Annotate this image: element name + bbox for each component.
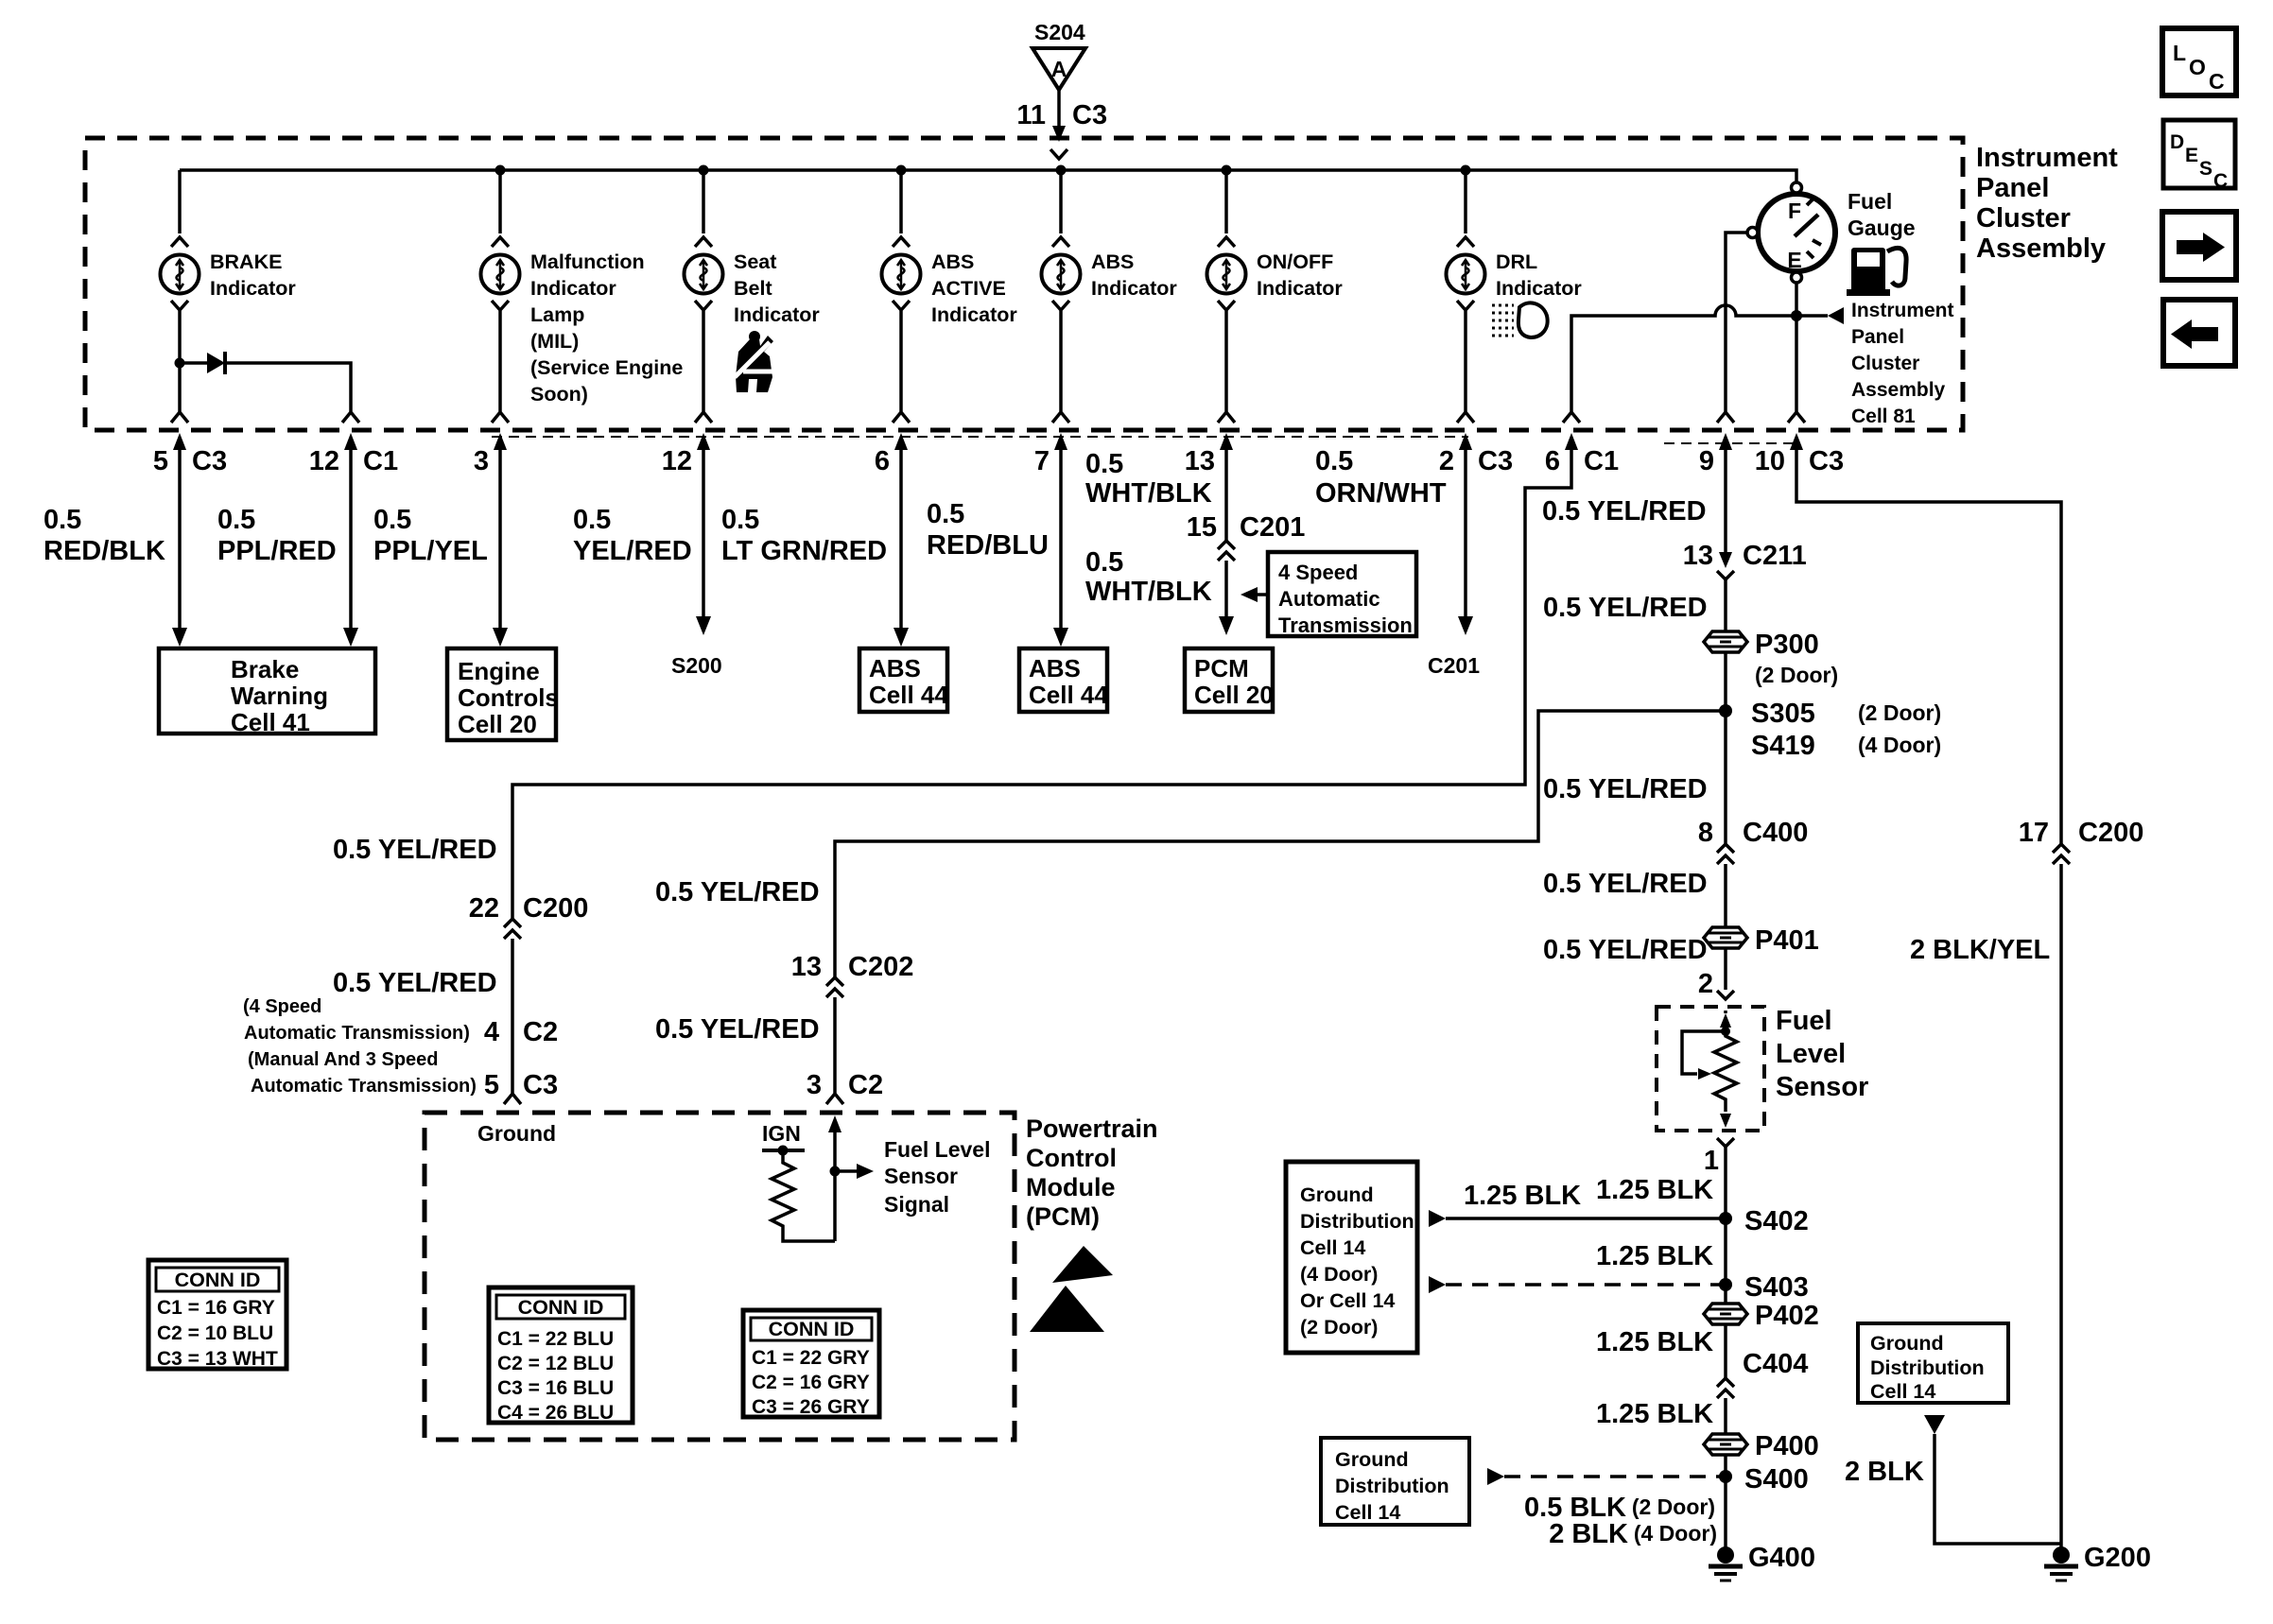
svg-text:Fuel: Fuel — [1776, 1006, 1832, 1036]
wire C211 to P300 — [1724, 579, 1727, 631]
wire splice S305 stepped to connector 13 C202 — [835, 711, 1720, 977]
svg-text:Automatic Transmission): Automatic Transmission) — [251, 1076, 477, 1097]
box 4 Speed Automatic Transmission — [1268, 552, 1416, 637]
connector 13 C211 in-line — [1683, 541, 1807, 579]
svg-text:C2: C2 — [523, 1017, 558, 1047]
svg-text:1.25 BLK: 1.25 BLK — [1596, 1175, 1713, 1205]
svg-text:C1 = 16 GRY: C1 = 16 GRY — [157, 1297, 275, 1319]
pin 12 of cluster — [662, 433, 710, 476]
wire fuel gauge left terminal to pin 9 — [1717, 233, 1747, 423]
wire label 0.5 WHT/BLK (upper) — [1085, 449, 1212, 509]
svg-text:2 BLK/YEL: 2 BLK/YEL — [1910, 935, 2050, 965]
svg-text:F: F — [1788, 199, 1801, 223]
wire P300 to splice S305 — [1724, 652, 1727, 844]
node bus/ON-OFF — [1222, 165, 1232, 176]
svg-text:C: C — [2213, 170, 2228, 192]
thin dashed connector segment right — [1664, 442, 1796, 444]
svg-text:0.5 YEL/RED: 0.5 YEL/RED — [1543, 869, 1708, 899]
svg-text:C4 = 26 BLU: C4 = 26 BLU — [497, 1402, 614, 1424]
wire pin 13 to connector C201 — [1224, 450, 1228, 541]
svg-text:(4 Door): (4 Door) — [1858, 733, 1941, 757]
pin 6 C1 of cluster — [1545, 433, 1619, 476]
svg-text:15: 15 — [1187, 512, 1217, 543]
svg-text:C2 = 16 GRY: C2 = 16 GRY — [752, 1372, 870, 1393]
indicator lamp MIL — [481, 255, 520, 294]
connector C404 in-line — [1717, 1349, 1808, 1398]
connector 17 C200 in-line — [2019, 818, 2144, 864]
svg-text:2 BLK: 2 BLK — [1845, 1457, 1924, 1487]
svg-text:C2 = 12 BLU: C2 = 12 BLU — [497, 1353, 614, 1374]
svg-text:S: S — [2199, 158, 2212, 180]
svg-text:Malfunction: Malfunction — [530, 251, 645, 273]
svg-text:C: C — [2209, 69, 2225, 94]
wire PCM pin 3 C2 to signal node (arrow up into box) — [828, 1115, 842, 1241]
label BRAKE Indicator — [210, 251, 296, 300]
svg-text:Transmission: Transmission — [1278, 613, 1413, 637]
svg-text:Seat: Seat — [734, 251, 776, 273]
ground G200 — [2044, 1543, 2151, 1581]
svg-text:WHT/BLK: WHT/BLK — [1085, 577, 1212, 607]
svg-text:RED/BLK: RED/BLK — [43, 536, 165, 566]
wire bus to ABS lamp — [1052, 170, 1069, 247]
wire C200 to ground G200 — [2059, 864, 2063, 1548]
svg-text:Instrument: Instrument — [1851, 300, 1954, 321]
svg-text:C2: C2 — [848, 1070, 883, 1100]
svg-text:0.5: 0.5 — [1085, 547, 1123, 578]
svg-text:0.5 YEL/RED: 0.5 YEL/RED — [333, 968, 497, 998]
svg-text:P401: P401 — [1755, 925, 1819, 956]
wire node to continuation arrow — [1796, 314, 1828, 318]
wire bus to DRL lamp — [1457, 170, 1474, 247]
label DRL Indicator — [1496, 251, 1582, 300]
svg-text:YEL/RED: YEL/RED — [573, 536, 692, 566]
svg-text:(4 Door): (4 Door) — [1300, 1263, 1378, 1286]
indicator lamp ABS — [1042, 255, 1081, 294]
svg-text:E: E — [2185, 145, 2198, 166]
svg-text:C3: C3 — [1478, 446, 1513, 476]
svg-text:0.5: 0.5 — [373, 505, 411, 535]
svg-text:Belt: Belt — [734, 277, 772, 300]
wire pin 5 to Brake Warning — [172, 450, 187, 647]
svg-text:(4 Speed: (4 Speed — [243, 996, 321, 1017]
svg-text:S204: S204 — [1034, 20, 1085, 44]
indicator lamp Seat Belt — [685, 255, 723, 294]
svg-text:Fuel: Fuel — [1848, 189, 1892, 214]
label Fuel Level Sensor — [1776, 1006, 1868, 1102]
wire pin 10 C3 to connector 17 C200 — [1796, 450, 2061, 844]
splice node S305/S419 — [1719, 699, 1941, 761]
svg-text:Cluster: Cluster — [1851, 353, 1919, 374]
wire label 0.5 WHT/BLK (lower) — [1085, 547, 1212, 607]
svg-text:ABS: ABS — [1029, 654, 1081, 682]
svg-text:C3: C3 — [1809, 446, 1844, 476]
svg-text:Gauge: Gauge — [1848, 216, 1916, 240]
svg-text:Assembly: Assembly — [1851, 379, 1946, 401]
svg-text:0.5: 0.5 — [1315, 446, 1353, 476]
wire bus to ABS ACTIVE lamp — [893, 170, 910, 247]
svg-text:C211: C211 — [1743, 541, 1807, 571]
svg-text:Powertrain: Powertrain — [1026, 1114, 1158, 1143]
pin 2 C3 of cluster — [1439, 433, 1513, 476]
svg-text:CONN ID: CONN ID — [175, 1269, 261, 1291]
thin dashed connector line under cluster — [492, 436, 1468, 438]
wire bus to Seat Belt lamp — [695, 170, 712, 247]
svg-text:Or Cell 14: Or Cell 14 — [1300, 1289, 1395, 1312]
box Engine Controls Cell 20 — [447, 648, 559, 740]
svg-text:Cell 20: Cell 20 — [1194, 681, 1274, 709]
wire connector C201 to PCM cell 20 — [1219, 561, 1234, 635]
connector 13 C202 in-line — [791, 952, 914, 997]
button previous arrow — [2163, 300, 2235, 366]
svg-text:PPL/YEL: PPL/YEL — [373, 536, 488, 566]
svg-text:6: 6 — [875, 446, 890, 476]
svg-text:P400: P400 — [1755, 1431, 1819, 1461]
wire pin 6 C1 riser to gauge output node (with hop over pin 9 wire) — [1563, 305, 1796, 423]
label Powertrain Control Module (PCM) — [1026, 1114, 1158, 1231]
label Fuel Level Sensor Signal — [884, 1137, 990, 1217]
svg-text:11: 11 — [1016, 100, 1046, 130]
svg-text:Indicator: Indicator — [530, 277, 616, 300]
svg-text:C202: C202 — [848, 952, 913, 982]
pin 11 C3 labels — [1016, 100, 1107, 130]
terminal fuel gauge top — [1792, 182, 1802, 193]
svg-text:Fuel Level: Fuel Level — [884, 1137, 990, 1162]
svg-text:Assembly: Assembly — [1976, 233, 2106, 264]
svg-text:P402: P402 — [1755, 1301, 1819, 1331]
indicator lamp ABS ACTIVE — [882, 255, 921, 294]
svg-text:Sensor: Sensor — [884, 1164, 958, 1188]
svg-text:L: L — [2173, 41, 2186, 65]
svg-text:13: 13 — [1185, 446, 1215, 476]
svg-text:C200: C200 — [523, 893, 588, 924]
svg-text:3: 3 — [807, 1070, 822, 1100]
wire S204 to cluster pin 11 C3 — [1052, 90, 1066, 142]
svg-text:10: 10 — [1755, 446, 1785, 476]
svg-text:Distribution: Distribution — [1335, 1475, 1449, 1497]
connector 22 C200 in-line — [469, 893, 589, 939]
svg-text:S305: S305 — [1751, 699, 1815, 729]
svg-text:Indicator: Indicator — [931, 303, 1017, 326]
indicator lamp DRL — [1447, 255, 1485, 294]
wire connector C202 to PCM signal pin 3 C2 — [826, 997, 843, 1104]
box PCM Cell 20 — [1185, 648, 1274, 712]
svg-text:Warning: Warning — [231, 682, 328, 710]
box Ground Distribution Cell 14 (lower left) — [1321, 1438, 1469, 1525]
indicator lamp ON/OFF — [1207, 255, 1246, 294]
wire pin 12 to splice S200 — [696, 450, 711, 635]
wire pin 9 to connector C211 — [1724, 450, 1727, 552]
svg-text:0.5 YEL/RED: 0.5 YEL/RED — [1543, 935, 1708, 965]
label Instrument Panel Cluster Assembly — [1976, 143, 2118, 264]
svg-text:CONN ID: CONN ID — [518, 1296, 604, 1319]
svg-text:0.5: 0.5 — [217, 505, 255, 535]
wire connector C200 to PCM ground pin — [504, 939, 521, 1104]
connector chevron at cluster entry — [1050, 149, 1067, 159]
svg-text:Automatic Transmission): Automatic Transmission) — [244, 1023, 470, 1044]
dashed wire ground distribution to splice S403 — [1429, 1276, 1726, 1293]
node bus/MIL — [495, 165, 506, 176]
wire label 0.5 LT GRN/RED — [721, 505, 887, 566]
icon fuel pump — [1847, 248, 1906, 296]
svg-text:Lamp: Lamp — [530, 303, 584, 326]
svg-text:Level: Level — [1776, 1039, 1846, 1069]
pass-through grommet P402 — [1704, 1301, 1819, 1331]
svg-text:2: 2 — [1439, 446, 1454, 476]
svg-text:Brake: Brake — [231, 655, 299, 683]
wire pin 6 to ABS cell 44 — [894, 450, 909, 647]
wire P401 to Fuel Level Sensor pin 2 — [1698, 948, 1734, 999]
svg-text:Distribution: Distribution — [1300, 1210, 1414, 1233]
button next arrow — [2162, 212, 2236, 280]
svg-text:O: O — [2189, 55, 2206, 79]
box ABS Cell 44 (left) — [859, 648, 948, 712]
svg-text:C400: C400 — [1743, 818, 1808, 848]
wire pin 12 C1 to Brake Warning — [343, 450, 358, 647]
svg-text:C3 = 13 WHT: C3 = 13 WHT — [157, 1348, 278, 1370]
svg-text:1.25 BLK: 1.25 BLK — [1596, 1241, 1713, 1271]
svg-text:1.25 BLK: 1.25 BLK — [1464, 1181, 1581, 1211]
svg-text:PCM: PCM — [1194, 654, 1249, 682]
svg-text:RED/BLU: RED/BLU — [927, 530, 1049, 561]
svg-text:2: 2 — [1698, 969, 1713, 999]
svg-text:(2 Door): (2 Door) — [1300, 1316, 1378, 1339]
svg-text:12: 12 — [309, 446, 339, 476]
svg-text:9: 9 — [1699, 446, 1714, 476]
svg-text:(2 Door): (2 Door) — [1858, 700, 1941, 725]
svg-text:0.5 YEL/RED: 0.5 YEL/RED — [1543, 593, 1708, 623]
wire ON/OFF lamp to pin 13 — [1218, 301, 1235, 423]
svg-text:C1 = 22 GRY: C1 = 22 GRY — [752, 1347, 870, 1369]
arrow 4 Speed box to WHT/BLK wire — [1241, 587, 1268, 602]
svg-text:Ground: Ground — [477, 1121, 556, 1146]
splice node S400 — [1719, 1464, 1809, 1494]
pass-through grommet P401 — [1704, 925, 1819, 956]
pin 6 of cluster — [875, 433, 908, 476]
svg-text:7: 7 — [1034, 446, 1050, 476]
svg-text:4: 4 — [484, 1017, 499, 1047]
box Brake Warning Cell 41 — [159, 648, 375, 736]
svg-text:Engine: Engine — [458, 657, 540, 685]
table CONN ID (PCM C1-C3 GRY) — [743, 1310, 879, 1418]
wire bus inside cluster — [180, 170, 1796, 182]
fuel gauge — [1758, 194, 1835, 272]
svg-text:Cell 14: Cell 14 — [1870, 1380, 1935, 1403]
svg-text:Indicator: Indicator — [1496, 277, 1582, 300]
wire pin 6 C1 stepped to connector 22 C200 — [512, 450, 1571, 919]
label (Manual And 3 Speed Automatic Transmission) pin 5 C3 — [248, 1049, 558, 1100]
connector 15 C201 in-line — [1187, 512, 1306, 561]
svg-text:CONN ID: CONN ID — [769, 1318, 855, 1340]
svg-text:C201: C201 — [1428, 653, 1480, 678]
wire pin 7 to ABS cell 44 — [1053, 450, 1068, 647]
svg-text:E: E — [1787, 248, 1801, 272]
svg-text:S403: S403 — [1744, 1272, 1809, 1303]
svg-text:S419: S419 — [1751, 731, 1815, 761]
label ABS Indicator — [1091, 251, 1177, 300]
svg-text:Signal: Signal — [884, 1192, 949, 1217]
wire label 0.5 YEL/RED — [573, 505, 692, 566]
svg-text:S402: S402 — [1744, 1206, 1809, 1236]
wire label 0.5 RED/BLU — [927, 499, 1049, 561]
indicator lamp BRAKE — [161, 255, 200, 294]
Powertrain Control Module (PCM) dashed box — [425, 1113, 1015, 1440]
svg-text:Cell 14: Cell 14 — [1335, 1501, 1400, 1524]
wire ground distribution (right) to G200 wire — [1924, 1415, 2061, 1544]
svg-text:(2 Door): (2 Door) — [1632, 1494, 1715, 1519]
svg-text:ORN/WHT: ORN/WHT — [1315, 478, 1447, 509]
wire label 2 BLK (4 Door) — [1549, 1519, 1717, 1549]
Fuel Level Sensor dashed box — [1657, 1007, 1764, 1131]
svg-text:0.5: 0.5 — [721, 505, 759, 535]
svg-text:Soon): Soon) — [530, 383, 588, 406]
svg-text:DRL: DRL — [1496, 251, 1537, 273]
variable resistor (fuel level sender) — [1714, 1011, 1737, 1128]
svg-text:8: 8 — [1698, 818, 1713, 848]
node bus/DRL — [1461, 165, 1471, 176]
wire bus to BRAKE lamp — [171, 170, 188, 247]
pin 12 C1 of cluster — [309, 433, 398, 476]
svg-text:1: 1 — [1704, 1146, 1719, 1176]
label pin 3 C2 — [807, 1070, 883, 1100]
svg-text:Indicator: Indicator — [1257, 277, 1343, 300]
label ON/OFF Indicator — [1257, 251, 1343, 300]
label Malfunction Indicator Lamp (MIL) (Service Engine Soon) — [530, 251, 683, 406]
svg-text:Automatic: Automatic — [1278, 587, 1380, 611]
svg-text:Module: Module — [1026, 1173, 1116, 1201]
svg-text:Ground: Ground — [1335, 1448, 1409, 1471]
svg-text:Indicator: Indicator — [734, 303, 820, 326]
pass-through grommet P300 — [1704, 630, 1838, 687]
svg-text:LT GRN/RED: LT GRN/RED — [721, 536, 887, 566]
svg-text:A: A — [1051, 57, 1067, 81]
pass-through grommet P400 — [1704, 1431, 1819, 1461]
node IGN — [778, 1146, 789, 1156]
svg-text:(Manual And 3 Speed: (Manual And 3 Speed — [248, 1049, 439, 1070]
svg-text:6: 6 — [1545, 446, 1560, 476]
svg-text:IGN: IGN — [762, 1121, 801, 1146]
wire DRL lamp to pin 2 C3 — [1457, 301, 1474, 423]
svg-text:G400: G400 — [1748, 1543, 1815, 1573]
svg-text:Sensor: Sensor — [1776, 1072, 1868, 1102]
svg-text:1.25 BLK: 1.25 BLK — [1596, 1399, 1713, 1429]
ground G400 — [1709, 1543, 1815, 1581]
icon DRL headlamp — [1492, 302, 1548, 337]
label ABS ACTIVE Indicator — [931, 251, 1017, 326]
wire Seat Belt lamp to pin 12 — [695, 301, 712, 423]
node diode junction — [175, 358, 185, 369]
svg-text:0.5: 0.5 — [927, 499, 964, 529]
wire label 0.5 PPL/YEL — [373, 505, 488, 566]
svg-text:P300: P300 — [1755, 630, 1819, 660]
svg-text:0.5 YEL/RED: 0.5 YEL/RED — [1543, 774, 1708, 804]
svg-text:2 BLK: 2 BLK — [1549, 1519, 1628, 1549]
svg-text:ABS: ABS — [1091, 251, 1134, 273]
svg-text:C3: C3 — [1072, 100, 1107, 130]
svg-text:ABS: ABS — [869, 654, 921, 682]
wire P402 to C404 — [1724, 1324, 1727, 1378]
svg-text:Cell 81: Cell 81 — [1851, 406, 1916, 427]
node gauge output junction — [1791, 310, 1802, 321]
splice node S402 — [1719, 1206, 1809, 1236]
wire ABS ACTIVE lamp to pin 6 — [893, 301, 910, 423]
svg-text:0.5: 0.5 — [573, 505, 611, 535]
svg-text:4 Speed: 4 Speed — [1278, 561, 1358, 584]
pin 10 C3 of cluster — [1755, 433, 1844, 476]
svg-text:Ground: Ground — [1300, 1183, 1374, 1206]
wire label 0.5 ORN/WHT — [1315, 446, 1447, 509]
Instrument Panel Cluster Assembly dashed box — [85, 138, 1963, 430]
icon seat belt — [735, 331, 773, 392]
button LOC — [2162, 28, 2236, 95]
box ABS Cell 44 (right) — [1019, 648, 1108, 712]
wiper arm of fuel level sensor — [1682, 1031, 1726, 1080]
svg-text:PPL/RED: PPL/RED — [217, 536, 337, 566]
box Ground Distribution Cell 14 (4 Door) Or Cell 14 (2 Door) — [1286, 1162, 1417, 1353]
svg-text:Panel: Panel — [1976, 173, 2049, 203]
svg-text:S200: S200 — [671, 653, 722, 678]
splice symbol S204 — [1032, 48, 1085, 90]
wire fuel gauge bottom terminal to pin 10 C3 — [1788, 283, 1805, 423]
svg-text:Cell 14: Cell 14 — [1300, 1236, 1365, 1259]
svg-text:Cluster: Cluster — [1976, 203, 2071, 233]
svg-text:C3 = 16 BLU: C3 = 16 BLU — [497, 1377, 614, 1399]
wire bus to MIL lamp — [492, 170, 509, 247]
svg-text:Cell 20: Cell 20 — [458, 710, 537, 738]
svg-text:C200: C200 — [2078, 818, 2143, 848]
wire pin 3 to Engine Controls — [493, 450, 508, 647]
node bus/ABS ACTIVE — [896, 165, 907, 176]
svg-text:0.5 YEL/RED: 0.5 YEL/RED — [333, 835, 497, 865]
svg-text:S400: S400 — [1744, 1464, 1809, 1494]
node Fuel Level Sensor Signal — [830, 1166, 841, 1177]
pin 9 of cluster — [1699, 433, 1732, 476]
svg-text:5: 5 — [484, 1070, 499, 1100]
svg-text:Control: Control — [1026, 1144, 1117, 1172]
icon ESD sensitive device — [1030, 1246, 1113, 1332]
pin 1 of fuel level sensor — [1704, 1138, 1734, 1176]
diode CR to pin 12 C1 — [180, 352, 359, 423]
svg-text:C3: C3 — [192, 446, 227, 476]
svg-text:3: 3 — [474, 446, 489, 476]
svg-text:BRAKE: BRAKE — [210, 251, 282, 273]
terminal fuel gauge bottom — [1792, 272, 1802, 283]
svg-text:Ground: Ground — [1870, 1332, 1944, 1355]
wire ground distribution to splice S402 — [1429, 1210, 1726, 1227]
svg-text:Indicator: Indicator — [1091, 277, 1177, 300]
label Instrument Panel Cluster Assembly Cell 81 — [1851, 300, 1954, 427]
wire pin 2 C3 to C201 — [1458, 450, 1473, 635]
button DESC — [2163, 120, 2235, 192]
splice node S403 — [1719, 1272, 1809, 1303]
svg-text:Cell 44: Cell 44 — [1029, 681, 1108, 709]
svg-text:Distribution: Distribution — [1870, 1356, 1985, 1379]
table CONN ID (PCM C1-C4 BLU) — [489, 1287, 633, 1424]
svg-text:G200: G200 — [2084, 1543, 2151, 1573]
svg-text:Instrument: Instrument — [1976, 143, 2118, 173]
table CONN ID (cluster connectors) — [148, 1260, 286, 1370]
svg-text:C3: C3 — [523, 1070, 558, 1100]
svg-text:5: 5 — [153, 446, 168, 476]
svg-text:Cell 41: Cell 41 — [231, 708, 310, 736]
svg-text:C1: C1 — [1584, 446, 1619, 476]
svg-text:C1: C1 — [363, 446, 398, 476]
svg-text:(MIL): (MIL) — [530, 330, 579, 353]
svg-text:Cell 44: Cell 44 — [869, 681, 948, 709]
svg-text:(PCM): (PCM) — [1026, 1202, 1100, 1231]
svg-text:ACTIVE: ACTIVE — [931, 277, 1006, 300]
wire C400 to P401 — [1724, 864, 1727, 927]
svg-text:(Service Engine: (Service Engine — [530, 356, 683, 379]
